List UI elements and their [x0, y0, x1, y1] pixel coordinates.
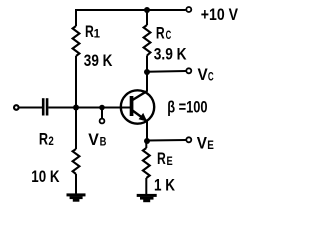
svg-text:2: 2 — [48, 134, 54, 148]
svg-text:39 K: 39 K — [84, 52, 113, 70]
svg-text:C: C — [166, 30, 172, 42]
wire VB stub — [101, 108, 103, 119]
junction dot base node — [73, 105, 79, 111]
resistor RC — [144, 25, 151, 56]
svg-text:C: C — [208, 72, 214, 84]
resistor R1 — [73, 26, 80, 56]
junction dot top rail / RC — [144, 7, 150, 13]
wire RC bottom lead — [146, 56, 148, 73]
wire emitter lead — [146, 120, 148, 141]
terminal VE — [186, 137, 191, 142]
svg-text:R: R — [39, 131, 48, 149]
svg-text:V: V — [198, 66, 208, 84]
wire capacitor to base node — [48, 107, 76, 109]
svg-text:+10 V: +10 V — [201, 6, 238, 24]
terminal VB — [100, 119, 105, 124]
svg-text:V: V — [197, 134, 207, 152]
svg-text:V: V — [88, 131, 99, 149]
capacitor C1 plate left — [42, 98, 45, 115]
wire R2 top lead — [75, 108, 77, 150]
wire R2 to ground — [75, 174, 77, 195]
svg-text:β =100: β =100 — [167, 99, 207, 117]
wire base node to transistor base — [76, 107, 131, 109]
svg-text:R: R — [157, 150, 166, 168]
resistor RE — [143, 148, 150, 178]
resistor R2 — [73, 149, 80, 174]
svg-text:B: B — [100, 135, 107, 149]
ground (RE branch) — [137, 194, 157, 202]
transistor Q1 — [121, 90, 154, 123]
svg-text:E: E — [207, 138, 214, 152]
junction dot VB stub — [99, 105, 105, 111]
wire emitter node to VE terminal — [147, 139, 186, 142]
terminal Vc — [186, 68, 191, 73]
junction dot emitter node — [144, 138, 150, 144]
wire collector node to Vc terminal — [147, 70, 186, 73]
svg-text:1: 1 — [94, 29, 101, 41]
terminal +10V — [186, 7, 191, 12]
ground (R2 branch) — [67, 193, 86, 201]
wire RC top lead — [146, 9, 148, 25]
svg-text:1 K: 1 K — [154, 177, 175, 195]
svg-text:E: E — [167, 154, 173, 168]
wire input to capacitor — [19, 107, 42, 109]
svg-text:R: R — [85, 23, 94, 41]
wire R1 top lead — [75, 9, 77, 26]
svg-text:3.9 K: 3.9 K — [154, 46, 187, 64]
junction dot collector node — [144, 69, 150, 75]
wire RE top lead — [145, 141, 147, 148]
terminal input — [14, 105, 19, 110]
wire top rail — [76, 9, 186, 11]
wire R1 to base node — [75, 56, 77, 108]
wire RE to ground — [145, 178, 147, 195]
svg-text:10 K: 10 K — [31, 168, 59, 186]
wire collector lead — [146, 72, 148, 92]
svg-text:R: R — [156, 25, 165, 43]
capacitor C1 plate right — [46, 98, 49, 115]
